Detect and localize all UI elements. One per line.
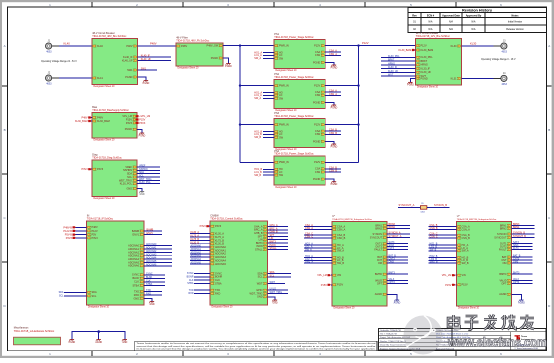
- wire PGND power stage 1: [325, 62, 334, 65]
- svg-text:CSN: CSN: [315, 171, 320, 174]
- svg-text:CSN_A: CSN_A: [462, 228, 471, 231]
- svg-text:KL40_UF: KL40_UF: [122, 59, 133, 62]
- port P3V3 IF: [66, 237, 87, 240]
- svg-text:Operating Voltage Range 24 - 5: Operating Voltage Range 24 - 54 V: [41, 60, 77, 63]
- svg-text:Designator Sheet 10: Designator Sheet 10: [94, 85, 116, 88]
- svg-text:GND: GND: [122, 342, 127, 344]
- svg-text:PGND: PGND: [331, 146, 338, 148]
- svg-text:PWR_IN: PWR_IN: [279, 124, 289, 127]
- net stub SDA diag: [137, 171, 160, 174]
- wire AGND msp: [512, 294, 522, 300]
- net stub CSN_C msp: [304, 236, 332, 239]
- svg-text:OM: OM: [502, 262, 506, 265]
- ground PGND (tie): [69, 340, 76, 344]
- net stub BMT3 msp right2: [512, 272, 533, 275]
- wire 48V breaker to filter P48V: [138, 42, 177, 46]
- svg-text:46S3: 46S3: [46, 84, 52, 86]
- svg-text:PGND: PGND: [139, 135, 146, 137]
- svg-text:P48V: P48V: [126, 45, 132, 48]
- net stub ADCINA5: [144, 260, 172, 263]
- net stub KL30_UF: [381, 70, 416, 73]
- net stub SW_A msp: [304, 248, 332, 251]
- net stub CSA_C msp: [304, 233, 332, 236]
- svg-text:RXD: RXD: [215, 292, 220, 295]
- net stub INON control right: [268, 244, 289, 247]
- svg-text:U*: U*: [332, 215, 335, 218]
- wire 48V bus branch 2: [240, 85, 274, 87]
- junction: [357, 44, 359, 46]
- sheet symbol power stage PS1: [274, 33, 325, 72]
- net stub BRN3 msp right: [512, 223, 535, 226]
- svg-text:A: A: [548, 44, 550, 48]
- wire PGND 12V breaker: [411, 78, 416, 82]
- svg-text:SW: SW: [279, 97, 284, 100]
- net stub SYNCIN_B msp right: [512, 232, 535, 235]
- svg-text:STBA: STBA: [215, 282, 222, 285]
- net stub SDA control right2: [268, 271, 292, 274]
- svg-text:ENV1: ENV1: [147, 232, 154, 235]
- sheet symbol miscellaneous: [14, 327, 61, 344]
- svg-text:CSN: CSN: [315, 133, 320, 136]
- svg-text:RXD: RXD: [188, 292, 193, 295]
- svg-text:TIDA-01718_xxHardware.SchDoc: TIDA-01718_xxHardware.SchDoc: [14, 329, 55, 333]
- net stub ENV1: [144, 232, 162, 235]
- svg-text:ADCINA6: ADCINA6: [146, 263, 157, 266]
- svg-text:P3V3: P3V3: [92, 237, 99, 240]
- port P15V msp: [321, 284, 332, 287]
- svg-text:P12V: P12V: [314, 45, 320, 48]
- junction: [239, 44, 241, 46]
- port P48V bias: [81, 116, 92, 119]
- svg-text:SW_A: SW_A: [337, 250, 344, 253]
- svg-text:PGND: PGND: [313, 140, 320, 143]
- net stub BRKT: [381, 59, 416, 62]
- svg-text:KL31: KL31: [451, 77, 457, 80]
- svg-text:AGND: AGND: [518, 301, 525, 304]
- svg-text:VPL_LM: VPL_LM: [442, 274, 452, 277]
- wire 12V bus branch 1: [325, 45, 358, 47]
- svg-text:CSN_A: CSN_A: [337, 228, 346, 231]
- svg-text:CSN_B: CSN_B: [337, 237, 346, 240]
- svg-text:WDT_TRIG: WDT_TRIG: [270, 291, 283, 294]
- svg-text:STALL: STALL: [270, 247, 278, 250]
- svg-text:OPT3: OPT3: [389, 281, 396, 284]
- svg-text:P3V3: P3V3: [126, 122, 133, 125]
- net stub VAL3 msp right2: [387, 278, 408, 281]
- ground PGND (48V breaker): [143, 81, 150, 85]
- net stub BONR control left: [187, 276, 210, 279]
- svg-text:TIDA-01718_Control.SchDoc: TIDA-01718_Control.SchDoc: [210, 218, 243, 221]
- net stub SW4: [254, 174, 274, 177]
- net stub HO1_A msp: [304, 243, 332, 246]
- svg-text:RXD: RXD: [146, 293, 151, 296]
- svg-text:TIDA-01718_MSP730_Subsystem.Sc: TIDA-01718_MSP730_Subsystem.SchDoc: [332, 218, 372, 221]
- net stub HO2_B msp: [429, 255, 457, 258]
- svg-text:PGND: PGND: [125, 128, 132, 131]
- net stub WVT: [381, 74, 416, 77]
- net stub CSA_B 4: [325, 166, 341, 169]
- svg-text:PGND: PGND: [331, 67, 338, 69]
- net stub CSA_A 2: [325, 90, 341, 93]
- connector J1: [46, 39, 53, 53]
- net stub TXD IF right: [144, 289, 162, 292]
- net stub BAMB: [144, 229, 162, 232]
- watermark elecfans logo circle: [404, 316, 443, 355]
- svg-text:P48V-B: P48V-B: [63, 226, 72, 229]
- ground GND (diag): [139, 192, 145, 196]
- net stub STBA IF right: [144, 283, 165, 286]
- net stub LIN control right: [268, 237, 289, 240]
- connector J3: [501, 39, 508, 53]
- svg-text:KL30_IF: KL30_IF: [421, 67, 431, 70]
- net stub KL75_A control: [190, 235, 210, 238]
- net stub FLT3 msp right2: [512, 247, 533, 250]
- svg-text:VIN: VIN: [337, 274, 341, 277]
- net stub KL30_B control: [190, 241, 210, 244]
- svg-text:SW_B: SW_B: [430, 248, 437, 251]
- svg-text:BRN2: BRN2: [500, 227, 507, 230]
- svg-text:SCL: SCL: [59, 295, 64, 298]
- sheet symbol 12V circuit breaker U3: [416, 32, 462, 88]
- net stub HO2_A msp: [304, 255, 332, 258]
- svg-text:Drawn By: Texas Instruments: Drawn By: Texas Instruments: [380, 344, 406, 347]
- svg-text:N/A: N/A: [429, 28, 433, 31]
- net stub OM3 msp right2: [387, 261, 408, 264]
- net stub NSHDN diag: [137, 168, 160, 171]
- svg-text:PGND: PGND: [313, 101, 320, 104]
- net stub HO4: [254, 168, 274, 171]
- svg-text:P12V: P12V: [314, 85, 320, 88]
- svg-text:SW_A: SW_A: [305, 248, 312, 251]
- svg-text:KL30_PGL: KL30_PGL: [120, 183, 133, 186]
- ground PGND (power stage 4): [331, 182, 338, 186]
- net stub CSN_C msp: [429, 236, 457, 239]
- watermark text dianzifashaoyou: [448, 315, 534, 330]
- net stub STBA control left: [187, 282, 210, 285]
- wire SYNCIN_B: [427, 203, 449, 207]
- net stub SW2_B msp: [429, 261, 457, 264]
- net stub ADCINA5 control: [190, 261, 210, 264]
- junction: [357, 123, 359, 125]
- net stub HRNG: [381, 62, 416, 65]
- svg-text:Operating Voltage Range 0 - 18: Operating Voltage Range 0 - 18 V: [481, 58, 516, 61]
- svg-text:46S3: 46S3: [502, 84, 508, 86]
- svg-text:GND: GND: [272, 302, 277, 304]
- svg-text:KL30_BAM: KL30_BAM: [75, 120, 88, 123]
- net stub KL30_PGL diag: [137, 181, 160, 184]
- wire SYNCOUT_A: [398, 203, 420, 207]
- wire PGND power stage 2: [325, 102, 334, 105]
- svg-text:CSN_C: CSN_C: [305, 236, 313, 239]
- svg-text:PWR_IN: PWR_IN: [279, 161, 289, 164]
- svg-text:BMTD: BMTD: [375, 273, 382, 276]
- sheet symbol diag U5: [92, 154, 137, 201]
- ground GND (IF): [149, 302, 155, 306]
- net stub SW3: [254, 136, 274, 139]
- svg-text:TIDA-01718_MSP730_Subsystem.Sc: TIDA-01718_MSP730_Subsystem.SchDoc: [457, 218, 497, 221]
- svg-text:Orderable: TIDA-01718: Orderable: TIDA-01718: [380, 329, 402, 332]
- svg-text:Designator Sheet 10: Designator Sheet 10: [276, 186, 298, 189]
- wire 48V bus branch 4: [240, 161, 274, 163]
- svg-text:KL30: KL30: [470, 42, 477, 46]
- wire PGND bias: [137, 129, 142, 133]
- svg-text:OM: OM: [378, 262, 382, 265]
- svg-text:CSN_B: CSN_B: [462, 237, 471, 240]
- ground PGND (filter): [225, 64, 232, 68]
- net stub CSN_B msp: [429, 227, 457, 230]
- svg-text:P15V: P15V: [462, 284, 468, 287]
- svg-text:STBA: STBA: [146, 283, 153, 286]
- wire KL30 to J3: [462, 42, 502, 46]
- net stub OPT3 msp right2: [387, 281, 408, 284]
- ground PGND (bias): [139, 133, 146, 137]
- svg-text:KL40: KL40: [64, 42, 71, 46]
- port KL30_BAM bias: [75, 120, 92, 123]
- net stub FLT3 msp right2: [387, 247, 408, 250]
- svg-text:Designator Sheet 10: Designator Sheet 10: [88, 306, 110, 309]
- net stub CSN_A 1: [325, 53, 341, 56]
- net stub VAL3 msp right2: [512, 278, 533, 281]
- net stub KL40_UF: [138, 58, 172, 61]
- svg-text:U*: U*: [457, 215, 460, 218]
- svg-text:KL30_UF: KL30_UF: [388, 70, 399, 73]
- svg-text:GND: GND: [126, 187, 132, 190]
- svg-text:BRKT: BRKT: [388, 59, 395, 62]
- net stub LO3: [254, 133, 274, 136]
- svg-text:Designator Sheet 10: Designator Sheet 10: [94, 197, 116, 200]
- svg-text:Initial Version: Initial Version: [508, 20, 523, 23]
- net stub SW1: [138, 68, 158, 71]
- net stub BRC_A control right: [268, 227, 289, 230]
- svg-text:CSN_C: CSN_C: [430, 236, 438, 239]
- svg-text:SDA: SDA: [59, 291, 64, 294]
- svg-text:PWR_IN: PWR_IN: [279, 85, 289, 88]
- net stub GHA_A control right: [268, 224, 289, 227]
- svg-text:KL30_BAM: KL30_BAM: [399, 49, 412, 52]
- svg-text:ADCINA5: ADCINA5: [191, 261, 202, 264]
- net stub BRN3 msp right: [387, 223, 410, 226]
- svg-text:P15V: P15V: [337, 284, 343, 287]
- net stub ADCINA4 control: [190, 258, 210, 261]
- svg-text:www.elecfans.com: www.elecfans.com: [447, 335, 547, 350]
- net stub LO4: [254, 171, 274, 174]
- net stub CLK control left: [189, 279, 210, 282]
- svg-text:OM3: OM3: [389, 261, 395, 264]
- svg-text:FAULT: FAULT: [499, 249, 507, 252]
- svg-text:BMT3: BMT3: [389, 272, 396, 275]
- svg-text:CSN_A: CSN_A: [305, 227, 313, 230]
- port VPL_LM msp: [442, 274, 457, 277]
- svg-text:Designator Sheet 10: Designator Sheet 10: [276, 69, 298, 72]
- svg-text:KL30: KL30: [451, 45, 457, 48]
- net stub LO1: [254, 54, 274, 57]
- svg-text:OPT3: OPT3: [513, 281, 520, 284]
- svg-text:P3V3: P3V3: [97, 168, 104, 171]
- net stub BMT3 control right: [268, 241, 289, 244]
- svg-text:FLT3: FLT3: [389, 247, 395, 250]
- svg-text:KL30_PDL: KL30_PDL: [421, 56, 434, 59]
- net stub SYNOUT_B msp right: [512, 235, 535, 238]
- svg-text:N/A: N/A: [449, 28, 453, 31]
- svg-text:PGND: PGND: [421, 77, 428, 80]
- svg-text:OPT: OPT: [377, 282, 383, 285]
- wire filter PGND: [223, 58, 229, 64]
- svg-text:46S3: 46S3: [502, 52, 508, 54]
- net stub ADCINA3 control: [190, 255, 210, 258]
- net stub SCL control right2: [268, 274, 292, 277]
- wire AGND msp: [387, 294, 397, 300]
- net stub VREF diag: [137, 165, 160, 168]
- connector J2: [46, 71, 53, 85]
- svg-text:SYNCOUT_A: SYNCOUT_A: [399, 203, 415, 207]
- net stub CSN_B 4: [325, 170, 341, 173]
- svg-text:SW2_A: SW2_A: [305, 261, 314, 264]
- svg-text:BMT3: BMT3: [513, 272, 520, 275]
- net stub HO2: [254, 91, 274, 94]
- net stub OM3 msp right2: [512, 261, 533, 264]
- svg-text:AGND: AGND: [375, 293, 382, 296]
- net stub SCL diag: [137, 175, 160, 178]
- wire GND IF: [144, 298, 152, 301]
- net stub SAT3 msp right2: [387, 241, 408, 244]
- net stub SIN3 msp right2: [387, 244, 408, 247]
- svg-text:KL40_UF: KL40_UF: [141, 58, 152, 61]
- net stub KL75_B control: [190, 238, 210, 241]
- svg-text:AGND: AGND: [95, 341, 102, 344]
- svg-text:A: A: [4, 44, 6, 48]
- net stub CSN_A 2: [325, 93, 341, 96]
- svg-text:N/A: N/A: [429, 20, 433, 23]
- svg-text:OPT: OPT: [501, 282, 507, 285]
- svg-text:TIDA-01718_Power_Stage.SchDoc: TIDA-01718_Power_Stage.SchDoc: [274, 153, 314, 156]
- svg-text:TIDA-01718_Power_Stage.SchDoc: TIDA-01718_Power_Stage.SchDoc: [274, 76, 314, 79]
- svg-text:CSN_B: CSN_B: [430, 227, 438, 230]
- wire GND diag: [137, 189, 142, 192]
- ground PGND (12V breaker): [407, 82, 414, 86]
- svg-text:KL40: KL40: [97, 45, 103, 48]
- svg-text:PGND: PGND: [331, 184, 338, 186]
- wire 12V bus branch 2: [325, 85, 358, 87]
- svg-text:P12V: P12V: [314, 161, 320, 164]
- connector J4: [501, 72, 508, 86]
- svg-text:Miscellaneous: Miscellaneous: [14, 327, 29, 329]
- net stub CSN_A msp: [304, 227, 332, 230]
- port P15V out: [135, 118, 145, 121]
- disclaimer note box: [135, 341, 377, 351]
- svg-text:ENV1: ENV1: [132, 233, 139, 236]
- svg-text:FLT3: FLT3: [513, 247, 519, 250]
- wire PGND power stage 3: [325, 141, 334, 144]
- net stub CSA_C msp: [429, 233, 457, 236]
- svg-text:STBA: STBA: [132, 284, 139, 287]
- net stub SW2: [254, 97, 274, 100]
- net stub ADCINA3: [144, 253, 172, 256]
- svg-text:KL30_BAM: KL30_BAM: [421, 49, 434, 52]
- svg-text:P12V: P12V: [362, 41, 369, 45]
- net stub CSA_A 1: [325, 50, 341, 53]
- svg-text:P15V: P15V: [321, 284, 327, 287]
- svg-text:TIDA-01718_Power_Stage.SchDoc: TIDA-01718_Power_Stage.SchDoc: [274, 36, 314, 39]
- net stub LO1_B msp: [429, 245, 457, 248]
- svg-text:SW_B: SW_B: [462, 262, 469, 265]
- svg-text:PGND: PGND: [225, 66, 232, 68]
- net stub LO2_A msp: [304, 258, 332, 261]
- svg-text:P12V: P12V: [421, 45, 427, 48]
- svg-text:N/A: N/A: [472, 20, 476, 23]
- sheet symbol 48V filter U2: [176, 37, 223, 70]
- net stub KL30_PDL: [381, 55, 416, 58]
- svg-text:WVT: WVT: [388, 74, 394, 77]
- net stub ADCINA4: [144, 257, 172, 260]
- ground AGND (msp): [394, 300, 401, 304]
- svg-text:Number: TIDA-01718 Size: B: Number: TIDA-01718 Size: B: [380, 340, 407, 343]
- net stub SW_B msp: [429, 248, 457, 251]
- junction: [357, 84, 359, 86]
- net stub STALL control right: [268, 247, 289, 250]
- svg-text:P3V3: P3V3: [66, 237, 73, 240]
- net stub TXD control left: [189, 289, 210, 292]
- sheet symbol MSP subsystem U9: [457, 215, 512, 310]
- net stub UVLO control right2: [268, 288, 289, 291]
- net stub WDT_TRIG diag: [137, 178, 160, 181]
- net stub BAT_B msp right2: [387, 255, 408, 258]
- ground AGND (msp): [518, 300, 525, 304]
- wire GND control: [268, 297, 276, 300]
- svg-text:ECN #: ECN #: [427, 14, 435, 17]
- net stub HO1_B msp: [429, 243, 457, 246]
- svg-text:BMTD: BMTD: [499, 273, 506, 276]
- svg-text:SCL: SCL: [270, 274, 275, 277]
- net stub CSA_A msp: [304, 224, 332, 227]
- svg-text:BRN2: BRN2: [375, 227, 382, 230]
- net stub SYNCIN_A msp right: [387, 232, 410, 235]
- svg-text:ADCINA6: ADCINA6: [128, 265, 139, 268]
- svg-text:KL41: KL41: [97, 77, 103, 80]
- svg-text:Designator Sheet 10: Designator Sheet 10: [212, 306, 234, 309]
- wire 12V bus branch 3: [325, 124, 358, 126]
- svg-text:P48V: P48V: [92, 226, 98, 229]
- svg-text:VPL_LM: VPL_LM: [317, 274, 327, 277]
- svg-text:Rev: Rev: [412, 14, 417, 17]
- svg-text:STALL: STALL: [255, 249, 263, 252]
- svg-text:N/A: N/A: [472, 28, 476, 31]
- svg-text:PGND: PGND: [313, 178, 320, 181]
- svg-text:P48V: P48V: [181, 45, 187, 48]
- wire J2 to 48V breaker: [52, 77, 92, 79]
- svg-text:Release Version: Release Version: [506, 28, 524, 31]
- net stub RXD control left: [188, 292, 210, 295]
- svg-text:Revision History: Revision History: [462, 9, 493, 13]
- svg-text:KL30_PDL: KL30_PDL: [388, 55, 400, 58]
- svg-text:KL30_BAM: KL30_BAM: [97, 120, 110, 123]
- wire ground tie: [72, 332, 125, 340]
- svg-text:SDA: SDA: [92, 291, 97, 294]
- net stub SDA IF: [59, 291, 87, 294]
- sheet symbol power stage PS3: [274, 112, 325, 151]
- svg-text:PGND: PGND: [69, 342, 76, 344]
- ground PGND (power stage 2): [331, 105, 338, 109]
- junction: [239, 84, 241, 86]
- svg-text:TIDA-01718_IF.SchDoc: TIDA-01718_IF.SchDoc: [87, 218, 114, 221]
- svg-text:B: B: [548, 128, 550, 132]
- net stub LO1_A msp: [304, 245, 332, 248]
- svg-text:P3V3: P3V3: [200, 225, 207, 228]
- wire PGND power stage 4: [325, 179, 334, 182]
- net stub SIN3 msp right2: [512, 244, 533, 247]
- svg-text:SYNOUT_A: SYNOUT_A: [389, 235, 402, 238]
- title block: [379, 329, 547, 351]
- svg-text:GND: GND: [133, 297, 139, 300]
